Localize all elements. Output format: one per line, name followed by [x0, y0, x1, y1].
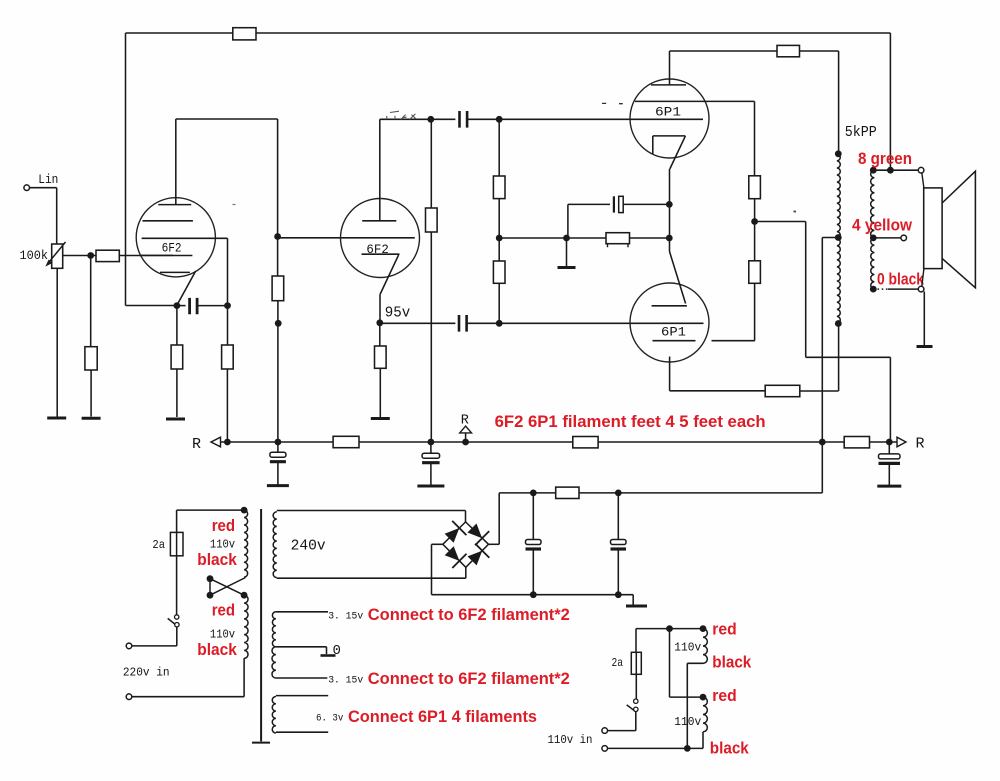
junction rail-cap3 — [886, 439, 893, 446]
wire B+ branch drop — [805, 222, 807, 358]
ground rail cap2 — [417, 485, 444, 488]
wire V2 plate to coupling cap 2 — [380, 118, 456, 120]
wire rail seg4 — [870, 441, 898, 443]
arrow rail up (R) — [460, 426, 472, 433]
resistor rail R3 — [844, 437, 869, 448]
arrow rail right — [897, 437, 906, 447]
wire C2 to 6P1 V3 grid — [467, 118, 703, 120]
wire B+ riser — [498, 493, 500, 544]
scribble erased voltage note — [387, 111, 416, 119]
inductor OPT secondary upper — [871, 170, 875, 238]
svg-text:red: red — [712, 620, 736, 639]
wire C3 to 6P1 V4 grid — [467, 322, 704, 324]
junction capA ground — [530, 591, 537, 598]
wire bridge AC- out — [432, 543, 443, 545]
svg-text:Connect to 6F2 filament*2: Connect to 6F2 filament*2 — [368, 605, 570, 624]
wire 110v lower terminal run — [608, 747, 704, 749]
tube V4 6P1 envelope — [630, 283, 709, 362]
wire 3.15v center tap — [276, 647, 327, 654]
speaker LS1 — [924, 188, 942, 269]
wire switch to terminal right — [608, 712, 636, 731]
wire filter capB top — [617, 493, 619, 540]
wire rail cap3 top — [888, 442, 890, 454]
tube V2 6F2 envelope — [341, 199, 420, 278]
svg-text:220v in: 220v in — [123, 665, 170, 679]
resistor grid leak 6P1 upper — [493, 176, 505, 199]
resistor V4 plate parasitic stopper — [765, 385, 800, 396]
wire to OPT primary top — [800, 51, 839, 154]
junction OPT primary center tap — [835, 234, 842, 241]
wire plate load to B+ rail — [277, 301, 279, 442]
wire between grid leaks — [498, 199, 500, 261]
wire divider to rail — [226, 369, 228, 442]
svg-text:red: red — [212, 516, 235, 535]
svg-text:black: black — [710, 739, 749, 758]
junction primary lower top — [241, 592, 248, 599]
junction V3 cathode node — [666, 201, 673, 208]
svg-text:3. 15v: 3. 15v — [328, 674, 363, 686]
wire 6.3v top tap — [276, 695, 328, 697]
inductor secondary 3.15v lower — [272, 647, 276, 678]
capacitor rail C1 electrolytic — [270, 452, 286, 457]
capacitor rail C2 electrolytic — [422, 453, 440, 458]
wire screen node to B+ branch — [755, 221, 806, 223]
wire feedback left drop — [125, 33, 127, 306]
wire Lin to volume pot — [30, 188, 57, 244]
wire B+ branch to rail — [889, 357, 891, 442]
resistor rail R1 — [333, 436, 359, 447]
wire V3 cathode down — [669, 169, 671, 204]
tube V2 cathode stroke — [380, 255, 399, 322]
wire B+ branch run — [806, 356, 891, 358]
resistor V3 plate parasitic stopper — [777, 45, 800, 56]
junction secondary 8-ohm — [870, 167, 877, 174]
junction V2 plate node — [427, 116, 434, 123]
svg-text:Connect to 6F2 filament*2: Connect to 6F2 filament*2 — [368, 669, 570, 688]
wire V2 plate load to rail — [430, 232, 432, 442]
terminal 220v lower — [126, 694, 132, 700]
wire rail cap1 bottom — [277, 463, 279, 485]
wire cathode to bypass cap — [177, 305, 186, 307]
stray mark 3 — [233, 204, 236, 206]
wire 6.3v bottom tap — [276, 731, 328, 733]
wire V2 cathode to resistor — [379, 323, 381, 346]
wire PSU ground drop — [632, 595, 634, 605]
resistor cathode V2 — [375, 346, 387, 368]
wire bridge + out — [489, 543, 500, 545]
ground cathode V2 — [371, 417, 390, 420]
svg-text:110v: 110v — [674, 642, 701, 655]
wire grid leak to 95v line — [498, 283, 500, 323]
junction secondary 4-ohm — [870, 235, 877, 242]
svg-text:black: black — [197, 640, 237, 659]
wire plate node to load resistor — [277, 237, 279, 277]
junction rail-divider — [224, 439, 231, 446]
svg-text:6F2: 6F2 — [366, 243, 388, 257]
inductor OPT secondary lower — [871, 238, 875, 289]
wire divider top leg — [227, 238, 229, 345]
tube V2 internal electrodes — [362, 221, 400, 254]
tube V4 cathode stroke — [670, 252, 686, 304]
junction primary top — [241, 507, 248, 514]
svg-text:2a: 2a — [612, 656, 624, 670]
wire HV winding bottom — [277, 577, 466, 579]
wire V3 plate to OPT resistor — [670, 50, 778, 52]
terminal 110v upper — [602, 728, 608, 734]
wire rail seg3 — [598, 441, 844, 443]
junction filter cap A — [530, 490, 537, 497]
svg-text:6. 3v: 6. 3v — [316, 712, 343, 724]
junction grid input node — [87, 252, 94, 259]
wire winding A bottom drop — [687, 663, 703, 748]
stray mark — [602, 102, 623, 104]
wire parallel link — [670, 629, 704, 698]
junction 95v grid return — [496, 320, 503, 327]
capacitor coupling C3 to 6P1 lower — [459, 315, 467, 332]
wire V4 plate run — [670, 390, 766, 392]
wire center tap — [822, 237, 838, 239]
junction OPT primary bottom — [835, 320, 842, 327]
svg-text:red: red — [212, 601, 235, 620]
svg-text:0: 0 — [333, 643, 341, 659]
fuse 2a (right) — [631, 652, 641, 674]
wire B+ to rail riser — [821, 442, 823, 493]
wire primary bottom to terminal — [132, 658, 244, 696]
wire upper grid leak top — [498, 119, 500, 176]
junction NFB pickup — [887, 167, 894, 174]
wire to V1 grid — [119, 255, 192, 257]
ground heater center tap — [321, 654, 336, 657]
junction X lower — [207, 592, 214, 599]
inductor 110v winding A — [703, 629, 707, 664]
svg-text:6F2 6P1 filament feet 4 5 feet: 6F2 6P1 filament feet 4 5 feet each — [495, 412, 766, 431]
wire to bridge top — [465, 511, 467, 522]
wire feedback drop to 8-ohm tap — [889, 33, 891, 168]
resistor screen V3 — [749, 176, 761, 199]
svg-text:black: black — [197, 550, 237, 569]
inductor 110v winding B — [703, 697, 707, 732]
wire tail run — [499, 237, 669, 239]
tube V1 6F2 envelope — [136, 198, 215, 277]
svg-text:0 black: 0 black — [877, 270, 924, 289]
fuse 2a (left) — [170, 532, 183, 555]
junction NFB divider node — [224, 302, 231, 309]
junction V4 bias node — [666, 235, 673, 242]
inductor primary 110v lower (left) — [244, 595, 248, 658]
svg-text:6P1: 6P1 — [655, 105, 681, 119]
wire filter capA bottom — [532, 549, 534, 595]
wire center tap B+ drop — [821, 238, 823, 443]
wire filter capA top — [532, 493, 534, 540]
junction dot on plate load drop — [275, 320, 282, 327]
wire mains primary top — [177, 509, 245, 511]
wire 0-ohm tap (part dotted) — [873, 288, 888, 290]
wire rail cap2 top — [430, 442, 432, 453]
wire speaker return to ground — [923, 292, 925, 346]
svg-text:110v: 110v — [674, 716, 701, 729]
wire filter capB bottom — [617, 549, 619, 595]
wire OPT primary bottom riser — [838, 324, 840, 392]
wire V1 plate drop — [277, 119, 279, 237]
ground speaker — [917, 345, 933, 348]
wire V2 plate lead — [379, 119, 381, 221]
svg-text:Lin: Lin — [38, 172, 58, 187]
potentiometer 100k VR1 — [52, 244, 63, 268]
resistor plate load V2 — [426, 208, 438, 232]
junction secondary 0-ohm — [870, 286, 877, 293]
wire V1 plate to V2 grid — [278, 237, 415, 239]
wire fuse top — [176, 510, 178, 532]
wire V2 cathode resistor to ground — [379, 368, 381, 417]
terminal 4-ohm — [901, 235, 907, 241]
svg-text:red: red — [712, 686, 736, 705]
wire rail cap3 bottom — [888, 464, 890, 485]
svg-text:8 green: 8 green — [858, 149, 912, 168]
svg-text:240v: 240v — [291, 538, 326, 554]
terminal 0-ohm — [918, 286, 924, 292]
tube V3 internal electrodes — [635, 85, 755, 102]
junction V2 cathode 95v node — [376, 319, 383, 326]
wire V1 cathode to resistor — [176, 306, 178, 345]
ground PSU — [626, 605, 647, 608]
junction capB ground — [615, 591, 622, 598]
inductor secondary 6.3v — [272, 697, 276, 733]
junction X upper — [207, 575, 214, 582]
wire B+ filter line — [499, 492, 822, 494]
wire rail seg2 — [359, 441, 573, 443]
ground rail cap3 — [877, 485, 901, 488]
wire rail cap2 bottom — [430, 464, 432, 486]
terminal 220v upper — [126, 643, 132, 649]
junction rail-B+ — [819, 439, 826, 446]
svg-text:R: R — [192, 436, 201, 453]
junction winding B top — [700, 694, 707, 701]
wire V4 plate to OPT bottom — [800, 390, 839, 392]
junction 110v parallel top — [666, 625, 673, 632]
junction tail node left — [496, 235, 503, 242]
wire fuse to switch right — [635, 674, 637, 699]
tube V3 cathode stroke — [670, 136, 686, 169]
svg-text:5kPP: 5kPP — [845, 124, 877, 141]
wire cap branch right — [623, 203, 669, 205]
inductor primary 110v upper (left) — [244, 510, 248, 577]
wire grid leak bottom — [90, 370, 92, 417]
wire cap branch drop — [567, 204, 569, 238]
junction OPT primary top — [835, 150, 842, 157]
svg-text:black: black — [712, 653, 751, 672]
svg-text:95v: 95v — [385, 306, 411, 322]
wire V1 plate lead to top — [175, 119, 177, 205]
resistor NFB divider lower — [222, 345, 234, 369]
wire 110v unit top — [636, 628, 703, 630]
tube V3 6P1 envelope — [630, 79, 709, 158]
svg-text:3. 15v: 3. 15v — [328, 610, 363, 622]
resistor screen V4 — [749, 261, 761, 284]
diode bridge D1-D4 — [443, 521, 490, 568]
wire tail to ground — [566, 238, 568, 267]
svg-text:6P1: 6P1 — [661, 326, 686, 340]
junction rail-cap2 — [428, 439, 435, 446]
tube V3 cathode bracket — [653, 136, 686, 154]
capacitor rail C3 electrolytic — [879, 454, 901, 459]
wire 3.15v upper tap — [276, 611, 328, 613]
ground tail — [558, 266, 576, 269]
junction winding A top — [700, 625, 707, 632]
junction rail-cap1 — [275, 439, 282, 446]
junction V1 plate node — [274, 233, 281, 240]
wire grid leak top — [90, 256, 92, 347]
wire fuse top right — [635, 629, 637, 653]
wire screen rail middle — [754, 199, 756, 261]
wire cathode resistor to ground — [176, 369, 178, 417]
wire 3.15v lower tap — [276, 677, 327, 679]
ground pot — [47, 417, 66, 420]
wire switch to terminal — [132, 627, 177, 646]
svg-text:6F2: 6F2 — [162, 241, 182, 255]
tube V1 internal electrodes — [141, 205, 228, 273]
tube V1 cathode stroke — [177, 271, 196, 305]
wire pot wiper to grid resistor — [63, 255, 96, 257]
crossover X series link — [210, 578, 246, 596]
inductor OPT primary winding — [837, 154, 840, 324]
capacitor coupling C2 to 6P1 upper — [460, 111, 468, 128]
resistor feedback R-NFB — [233, 28, 256, 40]
junction rail-R-arrow — [462, 439, 469, 446]
wire bridge negative drop — [431, 544, 433, 594]
junction V1 cathode node — [174, 302, 181, 309]
ground rail cap1 — [267, 484, 289, 487]
junction grid return upper — [496, 116, 503, 123]
wire bypass cap to divider — [197, 305, 227, 307]
transformer core — [252, 509, 270, 743]
terminal 8-ohm — [918, 167, 924, 173]
wire fuse to switch — [176, 556, 178, 615]
wire to bridge bottom — [465, 567, 467, 578]
wire rail cap1 top — [277, 442, 279, 452]
resistor grid stopper V1 — [96, 250, 119, 261]
svg-text:2a: 2a — [152, 538, 165, 552]
stray mark 2 — [794, 211, 797, 213]
svg-text:100k: 100k — [20, 249, 49, 263]
wire V4 screen drop — [754, 283, 756, 340]
wire PSU ground bus — [432, 594, 634, 596]
capacitor balance C4 — [613, 196, 615, 212]
resistor grid leak V1 — [85, 347, 97, 370]
svg-text:4 yellow: 4 yellow — [852, 216, 913, 235]
svg-text:R: R — [915, 436, 924, 453]
resistor grid leak 6P1 lower — [493, 261, 505, 283]
wire feedback to cathode node — [126, 305, 176, 307]
wire bias node down — [669, 238, 671, 252]
wire 95v run to cap — [380, 322, 456, 324]
resistor balance (horizontal, on tail run) — [606, 233, 630, 244]
wire 8-ohm tap — [873, 169, 918, 171]
wire cap branch left — [568, 203, 610, 205]
tube V4 internal electrodes — [652, 306, 755, 341]
wire V3 plate lead — [669, 51, 671, 85]
junction screen supply node — [751, 218, 758, 225]
wire feedback rail right segment — [256, 32, 890, 34]
wire feedback rail left segment — [126, 32, 233, 34]
wire cathode node to bias node — [669, 204, 671, 238]
wire rail seg1 — [221, 441, 334, 443]
wire 4-ohm tap — [873, 237, 901, 239]
wire pot bottom to ground — [56, 268, 58, 416]
svg-text:Connect 6P1 4 filaments: Connect 6P1 4 filaments — [348, 707, 537, 726]
wire winding B bottom — [702, 732, 704, 749]
resistor plate load V1 — [272, 276, 284, 301]
wire plate node down — [430, 119, 432, 208]
switch mains (right) — [634, 699, 638, 703]
terminal Lin input jack — [24, 185, 30, 191]
wire V4 plate lead down — [669, 357, 671, 391]
capacitor filter B electrolytic — [611, 540, 627, 545]
switch mains (left) — [175, 615, 179, 619]
resistor rail R2 — [573, 437, 598, 448]
wire V3 screen drop — [754, 101, 756, 175]
svg-text:110v in: 110v in — [548, 733, 593, 747]
wire HV winding top — [277, 510, 466, 512]
resistor B+ filter — [556, 487, 579, 498]
arrow rail left — [211, 437, 221, 447]
resistor cathode V1 — [171, 345, 183, 369]
ground grid leak — [82, 417, 101, 420]
inductor secondary 3.15v upper — [272, 612, 275, 647]
terminal 110v lower — [602, 746, 608, 752]
capacitor filter A electrolytic — [526, 540, 542, 545]
junction tail ground node — [563, 235, 570, 242]
junction winding A return — [684, 745, 691, 752]
wire V1 plate top run — [176, 118, 278, 120]
junction filter cap B — [615, 490, 622, 497]
inductor secondary 240v — [273, 512, 277, 578]
ground cathode V1 — [166, 418, 185, 421]
capacitor cathode bypass V1 — [190, 298, 198, 314]
